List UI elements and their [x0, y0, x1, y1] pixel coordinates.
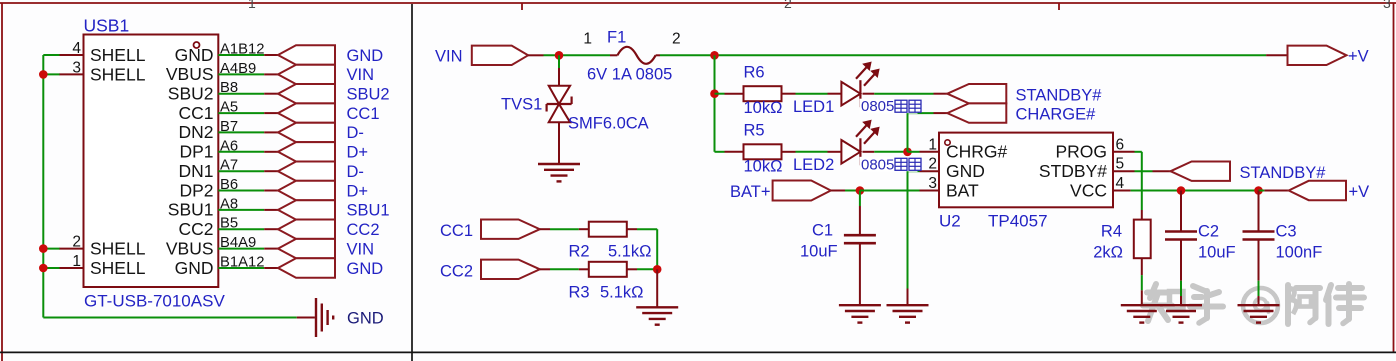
svg-text:CC1: CC1	[440, 222, 473, 240]
svg-text:B1A12: B1A12	[220, 255, 264, 271]
svg-text:VIN: VIN	[347, 66, 375, 84]
svg-text:CC1: CC1	[178, 103, 213, 123]
svg-text:+V: +V	[1349, 183, 1370, 201]
svg-text:SBU2: SBU2	[347, 86, 390, 104]
svg-text:3: 3	[1383, 0, 1391, 11]
svg-text:VBUS: VBUS	[166, 238, 214, 258]
svg-text:10uF: 10uF	[800, 243, 838, 261]
svg-text:SBU2: SBU2	[168, 84, 214, 104]
svg-text:DN1: DN1	[178, 161, 213, 181]
svg-text:DP2: DP2	[179, 180, 213, 200]
svg-text:D+: D+	[347, 182, 369, 200]
svg-text:2kΩ: 2kΩ	[1093, 244, 1123, 262]
svg-text:SHELL: SHELL	[90, 239, 146, 259]
svg-text:SBU1: SBU1	[168, 200, 214, 220]
svg-text:TP4057: TP4057	[988, 212, 1048, 231]
svg-text:2: 2	[928, 156, 937, 173]
svg-text:LED1: LED1	[793, 98, 834, 116]
svg-text:+V: +V	[1348, 48, 1369, 66]
svg-text:VCC: VCC	[1070, 180, 1107, 200]
svg-text:3: 3	[928, 175, 937, 192]
svg-text:5.1kΩ: 5.1kΩ	[608, 243, 652, 261]
svg-text:C3: C3	[1276, 223, 1297, 241]
svg-text:0805: 0805	[861, 156, 894, 173]
svg-text:2: 2	[672, 31, 681, 48]
svg-text:0805: 0805	[861, 98, 894, 115]
svg-text:VBUS: VBUS	[166, 64, 214, 84]
svg-text:1: 1	[72, 253, 81, 270]
svg-text:CC1: CC1	[347, 105, 380, 123]
svg-text:D-: D-	[347, 163, 364, 181]
svg-text:R6: R6	[744, 64, 765, 82]
svg-text:GND: GND	[175, 45, 214, 65]
svg-text:D+: D+	[347, 144, 369, 162]
svg-text:U2: U2	[939, 212, 961, 231]
svg-text:GND: GND	[347, 47, 384, 65]
svg-text:10kΩ: 10kΩ	[744, 157, 783, 175]
svg-text:A7: A7	[220, 158, 238, 174]
svg-text:4: 4	[1116, 175, 1125, 192]
svg-text:VIN: VIN	[347, 240, 375, 258]
svg-text:R3: R3	[569, 284, 590, 302]
svg-text:CC2: CC2	[440, 262, 473, 280]
svg-text:BAT+: BAT+	[730, 183, 771, 201]
svg-text:6: 6	[1116, 136, 1125, 153]
svg-text:PROG: PROG	[1055, 142, 1107, 162]
svg-text:5: 5	[1116, 156, 1125, 173]
svg-text:F1: F1	[607, 29, 626, 47]
svg-text:2: 2	[784, 0, 792, 11]
svg-text:B4A9: B4A9	[220, 235, 256, 251]
svg-text:C1: C1	[812, 222, 833, 240]
svg-text:CC2: CC2	[178, 219, 213, 239]
svg-text:SHELL: SHELL	[90, 258, 146, 278]
svg-text:STANDBY#: STANDBY#	[1240, 164, 1327, 182]
svg-text:R5: R5	[744, 122, 765, 140]
svg-text:CHRG#: CHRG#	[946, 142, 1008, 162]
svg-text:10kΩ: 10kΩ	[744, 99, 783, 117]
svg-text:B5: B5	[220, 216, 238, 232]
svg-text:R2: R2	[569, 243, 590, 261]
svg-text:VIN: VIN	[435, 48, 463, 66]
svg-text:TVS1: TVS1	[501, 96, 542, 114]
svg-text:1: 1	[583, 31, 592, 48]
svg-text:5.1kΩ: 5.1kΩ	[600, 284, 644, 302]
svg-text:6V 1A 0805: 6V 1A 0805	[587, 66, 672, 84]
svg-text:C2: C2	[1198, 223, 1219, 241]
svg-text:GT-USB-7010ASV: GT-USB-7010ASV	[84, 292, 225, 311]
svg-text:GND: GND	[175, 258, 214, 278]
svg-text:1: 1	[928, 136, 937, 153]
svg-text:A1B12: A1B12	[220, 42, 264, 58]
svg-text:SHELL: SHELL	[90, 64, 146, 84]
svg-text:BAT: BAT	[946, 180, 979, 200]
svg-text:DN2: DN2	[178, 122, 213, 142]
svg-text:STANDBY#: STANDBY#	[1016, 86, 1103, 104]
svg-text:A4B9: A4B9	[220, 61, 256, 77]
svg-text:1: 1	[248, 0, 256, 11]
svg-text:CC2: CC2	[347, 221, 380, 239]
svg-text:GND: GND	[946, 161, 985, 181]
svg-text:10uF: 10uF	[1198, 244, 1236, 262]
svg-text:4: 4	[72, 40, 81, 57]
svg-text:3: 3	[72, 59, 81, 76]
svg-text:R4: R4	[1101, 223, 1122, 241]
svg-text:SBU1: SBU1	[347, 202, 390, 220]
svg-text:GND: GND	[347, 260, 384, 278]
svg-text:B7: B7	[220, 119, 238, 135]
svg-text:STDBY#: STDBY#	[1039, 161, 1107, 181]
svg-text:LED2: LED2	[793, 156, 834, 174]
svg-text:B8: B8	[220, 80, 238, 96]
svg-text:CHARGE#: CHARGE#	[1016, 106, 1097, 124]
svg-text:D-: D-	[347, 124, 364, 142]
svg-text:A5: A5	[220, 100, 238, 116]
svg-text:A8: A8	[220, 196, 238, 212]
svg-text:B6: B6	[220, 177, 238, 193]
svg-text:DP1: DP1	[179, 142, 213, 162]
svg-text:SMF6.0CA: SMF6.0CA	[568, 115, 649, 133]
svg-text:2: 2	[72, 234, 81, 251]
svg-text:GND: GND	[347, 310, 384, 328]
svg-text:SHELL: SHELL	[90, 45, 146, 65]
svg-text:USB1: USB1	[84, 16, 130, 36]
svg-text:A6: A6	[220, 138, 238, 154]
svg-text:100nF: 100nF	[1276, 244, 1323, 262]
